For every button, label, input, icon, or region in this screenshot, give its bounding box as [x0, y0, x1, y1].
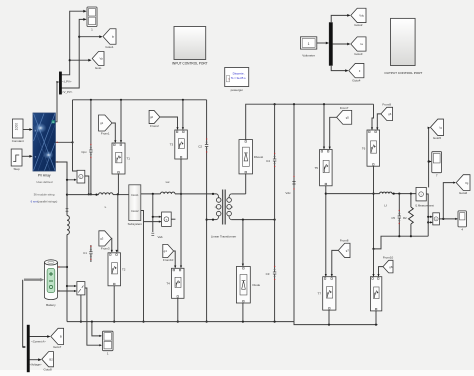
voltage measurement block Vab — [162, 212, 172, 226]
goto tag Goto7 — [51, 328, 64, 344]
from tag From1 — [99, 115, 113, 131]
wire switch block output to scope input 2 — [85, 288, 101, 345]
mosfet T7 — [323, 277, 336, 310]
svg-text:g7: g7 — [346, 249, 350, 253]
goto tag Goto3 — [351, 37, 366, 51]
wire Conn1 line to transformer primary top — [141, 193, 161, 195]
wire T7 source to bottom rail — [328, 310, 330, 325]
svg-text:Goto3: Goto3 — [354, 52, 363, 56]
wire bottom rail tap to scope input 1 — [92, 322, 101, 336]
wire boost diode to DC link rail — [246, 104, 374, 139]
wire T2 source to bottom rail — [113, 286, 115, 322]
svg-text:6 seri(parallel strings): 6 seri(parallel strings) — [31, 199, 58, 203]
scope Scope2 (two inputs) — [87, 7, 97, 27]
wire bottom line to T2 drain — [117, 194, 119, 252]
wire battery minus terminal to switch block — [58, 290, 77, 292]
wire transformer primary bottom — [207, 219, 217, 221]
battery m signal (thick) to bus selector — [24, 279, 42, 281]
goto tag Goto1 — [103, 29, 116, 45]
wire AC node 2 down to T8 drain — [373, 249, 375, 276]
wire bus selector to Goto8 — [30, 359, 41, 361]
scope Scope4 — [458, 211, 466, 227]
wire rail riser down to current measurement — [73, 100, 77, 171]
wire top DC rail (left converter) — [73, 99, 207, 101]
goto tag Goto5 — [430, 119, 443, 136]
wire From8 to T7 gate — [332, 250, 339, 276]
wire battery plus terminal — [58, 266, 68, 268]
svg-text:From3: From3 — [101, 246, 110, 250]
wire PV+ to rail riser — [55, 141, 72, 143]
mosfet T2 — [108, 253, 121, 286]
svg-text:g1: g1 — [100, 121, 104, 125]
goto tag Goto — [92, 52, 104, 66]
svg-text:From8: From8 — [340, 239, 349, 243]
mosfet T4 — [172, 268, 185, 298]
wire T8 source to bottom rail — [375, 311, 377, 325]
svg-text:Ir: Ir — [35, 128, 37, 132]
inductor Lw (series, horizontal) — [161, 192, 176, 194]
svg-text:<V_PV>: <V_PV> — [62, 90, 73, 94]
svg-text:g6: g6 — [388, 112, 392, 116]
wire converter bottom line — [67, 194, 99, 196]
svg-text:OUTPUT CONTROL PORT: OUTPUT CONTROL PORT — [384, 71, 422, 75]
bus selector for PV m signal — [59, 72, 61, 94]
wire T3 source down through node to T4 — [180, 159, 182, 268]
wire current measurement output down to bottom line — [85, 176, 89, 194]
svg-text:Goto7: Goto7 — [53, 345, 62, 349]
svg-text:C1: C1 — [83, 251, 87, 255]
capacitor C2 branch — [206, 100, 208, 322]
mosfet T1 — [112, 143, 125, 174]
wire bottom DC rail — [67, 321, 294, 323]
wire demux to Goto2 — [331, 15, 349, 23]
linear transformer — [215, 190, 234, 225]
wire node to Vab measurement — [152, 194, 154, 232]
powergui block — [225, 68, 249, 87]
from tag From2 — [149, 110, 160, 123]
svg-text:PV Array: PV Array — [38, 173, 51, 177]
wire secondary bottom to lower diode — [242, 220, 244, 266]
svg-text:<I_PV>: <I_PV> — [62, 79, 72, 83]
wire I1 signal to Goto5 and scope — [428, 128, 430, 188]
svg-text:T5: T5 — [314, 166, 318, 170]
inductor Lf (series, horizontal) — [380, 192, 392, 194]
from tag From3 — [99, 231, 112, 246]
svg-text:Vg: Vg — [465, 181, 469, 185]
svg-text:From9: From9 — [382, 103, 391, 107]
svg-text:Lf: Lf — [384, 204, 387, 208]
capacitor C4 branch — [274, 104, 276, 219]
svg-text:C5: C5 — [391, 216, 395, 220]
svg-text:m: m — [52, 121, 54, 124]
mosfet T3 — [175, 130, 188, 159]
wire rail to T3 drain — [182, 100, 184, 129]
step source block Step — [11, 149, 22, 166]
switch block (battery interface) — [77, 282, 85, 295]
svg-text:Constant: Constant — [12, 139, 24, 143]
svg-text:g3: g3 — [100, 237, 104, 241]
wire From10 to T8 gate — [379, 267, 384, 277]
resistor R2 branch — [410, 194, 412, 207]
capacitor C1 branch — [90, 245, 92, 262]
svg-text:Linear Transformer: Linear Transformer — [211, 235, 236, 239]
svg-text:Vp: Vp — [100, 57, 104, 61]
battery block Battery — [44, 260, 57, 300]
svg-text:Goto5: Goto5 — [433, 136, 442, 140]
svg-text:Goto8: Goto8 — [44, 367, 53, 371]
subsystem block Subsystem — [129, 185, 141, 221]
svg-text:powergui: powergui — [231, 88, 244, 92]
wire From2 to T3 gate — [160, 117, 178, 129]
svg-text:Voltmeter: Voltmeter — [302, 53, 315, 57]
wire switch block bottom to bottom rail — [80, 295, 82, 322]
bus selector (battery measurements) — [27, 325, 30, 372]
voltage measurement Vdc branch — [293, 104, 295, 321]
wire lower diode to bottom rail — [242, 303, 244, 322]
wire bus-selector output 2 to Scope and Goto1 — [62, 19, 86, 88]
scope Scope1 (two inputs) — [103, 331, 114, 351]
svg-text:C4: C4 — [266, 159, 270, 163]
goto tag Goto8 — [42, 352, 54, 367]
svg-text:T3: T3 — [170, 143, 174, 147]
wire Conn2 down to bottom rail — [141, 211, 144, 322]
svg-text:C2: C2 — [198, 145, 202, 149]
wire branch to switch block second input — [67, 285, 76, 287]
svg-text:Battery: Battery — [46, 303, 56, 307]
demux (vertical bar) — [329, 23, 332, 66]
svg-text:From1: From1 — [101, 131, 110, 135]
svg-text:T1: T1 — [126, 157, 130, 161]
wire transformer secondary top to boost diode — [231, 193, 246, 195]
wire PV m port to bus selector — [55, 82, 58, 122]
svg-text:Dboost: Dboost — [254, 155, 263, 159]
svg-text:Ts = 3e-05 s.: Ts = 3e-05 s. — [231, 76, 247, 80]
svg-text:From10: From10 — [163, 258, 174, 262]
svg-text:Step: Step — [14, 167, 21, 171]
mosfet T6 — [367, 130, 380, 166]
svg-text:T2: T2 — [122, 268, 126, 272]
wire From1 to T1 gate — [112, 123, 115, 142]
wire transformer secondary bottom — [231, 219, 274, 221]
wire demux to Goto3 — [333, 43, 350, 45]
wire to voltage measurement inputs — [428, 216, 432, 218]
svg-text:Conn1: Conn1 — [131, 194, 139, 197]
wire From3 to T2 gate — [111, 238, 113, 252]
svg-text:Subsystem: Subsystem — [128, 222, 143, 226]
wire DC rail to T6 drain — [372, 104, 374, 129]
wire AC output line — [326, 193, 380, 195]
wire load bottom return — [374, 236, 429, 249]
svg-text:g5: g5 — [346, 116, 350, 120]
svg-text:1: 1 — [308, 42, 310, 46]
svg-text:From2: From2 — [150, 124, 159, 128]
svg-text:INPUT CONTROL PORT: INPUT CONTROL PORT — [172, 62, 208, 66]
svg-text:Diode: Diode — [253, 283, 261, 287]
wire rail to T1 drain — [120, 100, 122, 142]
svg-text:Goto2: Goto2 — [354, 23, 363, 27]
wire battery branch vertical (PV- leg) — [66, 162, 68, 322]
mosfet T5 — [320, 150, 333, 186]
wire T5 source to AC node — [325, 186, 327, 276]
svg-text:R2: R2 — [403, 216, 407, 220]
svg-text:Discrete,: Discrete, — [233, 72, 245, 76]
svg-text:From10: From10 — [383, 256, 394, 260]
wire T6 source to AC node 2 — [373, 166, 375, 249]
diode Dboost — [239, 140, 253, 174]
svg-text:I1 Measurement: I1 Measurement — [415, 204, 434, 208]
from tag From7 — [337, 110, 352, 124]
svg-text:User-defined: User-defined — [36, 180, 52, 184]
wire Step to PV T input — [22, 155, 32, 157]
svg-text:T4: T4 — [166, 282, 170, 286]
svg-text:B: B — [60, 335, 62, 339]
svg-text:36-module string: 36-module string — [34, 192, 55, 196]
wire T1 source down to bottom line — [117, 174, 119, 194]
diode Diode — [236, 267, 250, 304]
svg-text:g8: g8 — [389, 265, 393, 269]
svg-text:Vdc: Vdc — [285, 191, 291, 195]
current measurement block I_PV — [77, 170, 85, 183]
svg-text:T6: T6 — [362, 146, 366, 150]
inductor L1 (battery branch, vertical) — [66, 216, 68, 235]
wire T4 source to bottom rail — [177, 298, 179, 321]
svg-text:<Voltage>: <Voltage> — [29, 363, 42, 367]
display block Voltmeter — [301, 37, 317, 49]
wire DC rail to T5 drain — [323, 104, 325, 149]
wire demux to Goto4 — [331, 65, 347, 71]
svg-text:Goto: Goto — [95, 66, 102, 70]
wire V measurement to Scope4 and Goto6 — [439, 218, 457, 220]
from tag From8 — [338, 243, 350, 257]
mosfet T8 — [370, 277, 381, 311]
svg-text:Vdc: Vdc — [359, 14, 364, 18]
scope Scope7 — [432, 152, 442, 173]
wire PV- down to current measurement input — [55, 162, 76, 180]
inductor L (series, horizontal) — [99, 193, 114, 195]
subsystem block OUTPUT CONTROL PORT — [391, 18, 416, 65]
svg-text:T7: T7 — [318, 292, 322, 296]
svg-text:From7: From7 — [340, 106, 349, 110]
wire From9 to T6 gate — [377, 114, 381, 130]
svg-text:Goto1: Goto1 — [105, 45, 114, 49]
wire From10 to T4 gate — [174, 251, 176, 268]
wire I1 output down to load return — [426, 194, 428, 236]
svg-text:Goto4: Goto4 — [352, 78, 361, 82]
wire bus-selector output 1 to Scope and Goto — [62, 11, 86, 75]
capacitor Cpv branch — [90, 100, 92, 195]
wire From7 to T5 gate — [330, 117, 337, 149]
wire Constant to PV Ir input — [23, 129, 32, 131]
capacitor C5 branch — [398, 194, 400, 237]
svg-text:Vab: Vab — [158, 235, 163, 239]
constant block Constant (1000) — [12, 119, 23, 138]
capacitor C3 branch — [274, 220, 276, 322]
svg-text:Conn2: Conn2 — [131, 210, 139, 213]
wire bus selector to Goto7 — [30, 336, 50, 338]
svg-text:C3: C3 — [266, 272, 270, 276]
svg-text:B2: B2 — [49, 357, 53, 361]
wire Voltmeter to demux — [317, 42, 329, 44]
goto tag Goto4 — [349, 63, 364, 77]
from tag From10 — [163, 244, 174, 257]
svg-text:Cpv: Cpv — [81, 150, 87, 154]
current measurement block I1 Measurement — [416, 187, 426, 201]
goto tag Goto2 — [351, 8, 366, 22]
voltage measurement block V load — [433, 213, 440, 225]
from tag From9 — [381, 107, 393, 120]
goto tag Goto6 — [456, 175, 470, 191]
svg-text:<Current A>: <Current A> — [31, 339, 46, 343]
from tag From10 (inverter) — [383, 260, 393, 273]
svg-text:g4: g4 — [164, 249, 168, 253]
svg-text:Goto6: Goto6 — [459, 191, 468, 195]
svg-text:g2: g2 — [150, 115, 154, 119]
svg-text:1000: 1000 — [15, 123, 19, 131]
